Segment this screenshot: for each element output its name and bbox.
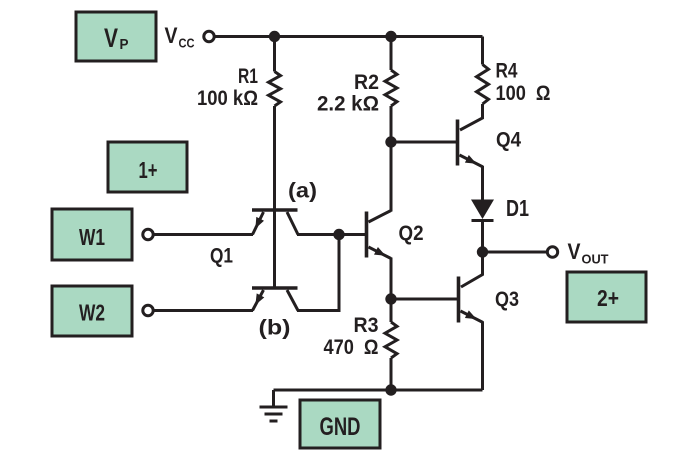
label box 1+: [108, 142, 187, 192]
node Q1 collectors / Q2 base junction: [333, 229, 344, 240]
resistor R1: [273, 37, 276, 72]
svg-text:(a): (a): [288, 180, 317, 203]
transistor Q1 section a: [252, 208, 298, 212]
svg-text:D1: D1: [506, 195, 529, 221]
wire right column R4 top: [481, 37, 484, 65]
label box 2+: [567, 272, 646, 322]
transistor Q2: [365, 212, 369, 258]
wire R1 bottom to Q1 bases: [273, 106, 276, 287]
wire Vout node down to Q3 collector: [461, 252, 483, 287]
svg-text:2.2 kΩ: 2.2 kΩ: [317, 93, 379, 116]
wire VCC top rail: [215, 35, 483, 38]
svg-text:100 Ω: 100 Ω: [496, 82, 551, 105]
diode D1: [471, 200, 494, 220]
terminal W1: [143, 229, 153, 239]
resistor R4: [477, 65, 489, 105]
svg-text:OUT: OUT: [582, 252, 609, 267]
svg-text:R4: R4: [496, 60, 518, 83]
ground: [260, 390, 288, 421]
wire R4 bottom to Q4 collector: [460, 104, 483, 130]
wire D1 to Vout node: [481, 219, 484, 252]
svg-text:R3: R3: [354, 314, 379, 337]
node VCC/R1 junction: [269, 31, 280, 42]
resistor R3: [390, 299, 393, 322]
svg-text:W2: W2: [79, 300, 105, 326]
svg-text:R2: R2: [354, 71, 379, 94]
wire bottom ground rail: [274, 389, 483, 392]
wire Q2 base: [339, 233, 365, 236]
svg-text:Q3: Q3: [495, 288, 519, 311]
svg-text:Q2: Q2: [399, 222, 424, 245]
svg-text:W1: W1: [79, 224, 105, 250]
svg-text:1+: 1+: [139, 157, 158, 183]
svg-text:V: V: [104, 23, 118, 53]
label box W1: [52, 209, 132, 260]
label box GND: [300, 400, 380, 448]
resistor R2: [390, 37, 393, 71]
wire Q1a collector to node: [297, 233, 339, 236]
label box VP: [76, 12, 156, 61]
node VCC/R2 junction: [385, 31, 396, 42]
svg-text:Q4: Q4: [496, 129, 521, 152]
svg-text:100 kΩ: 100 kΩ: [197, 87, 258, 110]
node R3 bottom / ground junction: [385, 384, 396, 395]
svg-text:(b): (b): [259, 317, 291, 340]
terminal VCC: [204, 31, 214, 41]
node R2/Q4 base/Q2 collector junction: [385, 136, 396, 147]
wire W1 input: [155, 233, 254, 236]
terminal VOUT: [547, 247, 557, 257]
wire Q1b collector up to Q2 base node: [297, 235, 339, 311]
svg-text:V: V: [165, 23, 178, 48]
node Q2 emitter/R3/Q3 base junction: [385, 293, 396, 304]
label box W2: [52, 286, 132, 336]
wire W2 input: [155, 309, 254, 312]
wire Q4 base: [391, 141, 456, 144]
transistor Q3: [457, 277, 461, 323]
svg-text:Q1: Q1: [210, 245, 233, 268]
wire Vout node to terminal: [483, 251, 547, 254]
transistor Q1 section b: [252, 286, 298, 290]
svg-text:V: V: [568, 239, 581, 264]
svg-text:GND: GND: [320, 413, 361, 441]
wire Q3 base: [391, 298, 457, 301]
transistor Q4: [456, 120, 460, 166]
svg-text:2+: 2+: [597, 285, 619, 311]
svg-text:470 Ω: 470 Ω: [324, 336, 379, 359]
svg-text:P: P: [120, 36, 129, 53]
node VOUT junction: [477, 246, 488, 257]
terminal W2: [143, 305, 153, 315]
svg-text:R1: R1: [238, 65, 258, 88]
svg-text:CC: CC: [179, 36, 196, 51]
